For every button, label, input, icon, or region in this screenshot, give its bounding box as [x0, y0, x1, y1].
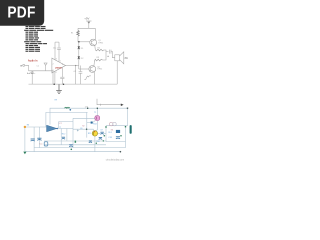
- speaker SP1: [115, 52, 124, 64]
- svg-text:2: 2: [53, 63, 54, 65]
- wire mic row: [106, 125, 128, 127]
- supply arrow: [87, 22, 90, 24]
- svg-text:PDF: PDF: [7, 5, 35, 22]
- svg-text:1: 1: [60, 60, 61, 62]
- svg-text:RL1: RL1: [108, 132, 111, 134]
- svg-text:8Ω: 8Ω: [125, 57, 128, 60]
- green mark far left: [75, 141, 77, 143]
- wire Q3-Q4 link: [95, 121, 97, 131]
- svg-text:R2: R2: [82, 125, 84, 127]
- wire top rail: [78, 27, 95, 29]
- wire C1 to rail: [31, 74, 33, 85]
- svg-text:T1: T1: [94, 112, 96, 114]
- op-amp U1: [52, 58, 66, 73]
- wire bias column lower: [78, 60, 80, 69]
- capacitor C2: [110, 50, 112, 54]
- wire cap to right vertical: [104, 132, 106, 134]
- output node dot: [75, 65, 76, 66]
- wire left vertical 3: [38, 127, 40, 148]
- svg-text:C9: C9: [100, 130, 102, 132]
- wire Q2 emitter: [93, 62, 96, 67]
- wire input rail: [25, 126, 47, 128]
- wire to Q4 base: [93, 129, 95, 131]
- transistor Q2: [89, 66, 96, 73]
- blue box lower-left: [44, 142, 48, 146]
- wire Q4 emitter down: [94, 136, 96, 152]
- svg-text:R2: R2: [98, 47, 100, 49]
- wire mid vertical a: [66, 129, 68, 141]
- wire bypass pin down: [54, 71, 56, 84]
- input jack J1: [23, 64, 26, 66]
- capacitor C4: [60, 77, 64, 78]
- wire gain loop right upper: [58, 42, 60, 48]
- svg-text:M1: M1: [111, 130, 114, 132]
- ground lower (green): [23, 152, 26, 155]
- transistor Q4 (yellow): [92, 131, 97, 136]
- wire mid vertical b: [72, 118, 74, 147]
- svg-text:.05: .05: [73, 71, 76, 73]
- wire rail left drop: [77, 28, 79, 30]
- wire bottom rail B1: [34, 147, 125, 149]
- wire gain loop left: [54, 42, 56, 60]
- wire jack to drop: [25, 65, 28, 71]
- svg-text:R12: R12: [62, 134, 65, 136]
- green dot left column: [104, 135, 106, 137]
- resistor R4: [84, 76, 91, 79]
- svg-text:R14: R14: [93, 123, 96, 125]
- capacitor C14: [62, 137, 66, 139]
- wire op-amp out: [57, 128, 61, 130]
- capacitor C1: [31, 72, 34, 73]
- wire lower rail H2: [46, 112, 88, 127]
- wire Q3 collector: [96, 108, 98, 116]
- wire pin to C4: [61, 67, 63, 77]
- green dot right: [103, 140, 104, 141]
- junction dot bias top: [78, 41, 80, 43]
- svg-text:C1: C1: [37, 66, 39, 68]
- wire C2 to speaker: [111, 52, 115, 58]
- wire base resistor to Q3: [93, 121, 96, 123]
- B2 end dot: [120, 151, 122, 153]
- capacitor right of Q4: [100, 132, 103, 134]
- wire H4: [106, 141, 126, 143]
- op-amp A1: [47, 125, 57, 132]
- wire Q1 emitter: [94, 45, 97, 49]
- wire base row: [73, 117, 95, 119]
- capacitor C11: [37, 138, 41, 140]
- wire mid row: [73, 128, 94, 130]
- transistor Q1: [90, 39, 97, 46]
- svg-text:R6: R6: [27, 124, 29, 126]
- +9V supply symbol: [86, 21, 92, 28]
- capacitor left cluster: [89, 141, 92, 143]
- svg-text:8: 8: [56, 58, 57, 60]
- wire feedback row: [59, 122, 73, 129]
- inductor L1: [65, 107, 72, 110]
- svg-text:IC2: IC2: [59, 123, 62, 125]
- capacitor C5: [79, 72, 83, 73]
- wire Q2 base: [79, 68, 89, 70]
- junction dot rail a: [53, 83, 55, 85]
- wire pin3 drop: [52, 71, 54, 84]
- node orange: [24, 126, 26, 128]
- node dot mic right: [125, 126, 126, 127]
- resistor R2: [95, 49, 103, 51]
- node dot H1 a: [87, 108, 88, 109]
- svg-text:R15: R15: [88, 133, 91, 135]
- junction cross mid: [77, 130, 79, 132]
- mic M1: [110, 122, 117, 125]
- diode D2: [78, 56, 85, 60]
- svg-text:R1: R1: [71, 33, 73, 35]
- svg-text:3: 3: [53, 70, 54, 72]
- wire gain loop right lower: [58, 49, 60, 62]
- ground symbol below rail: [56, 84, 62, 93]
- capacitor C10: [31, 139, 35, 141]
- callout arrow line: [97, 99, 121, 105]
- node dot H1 right end: [127, 108, 128, 109]
- svg-text:4: 4: [56, 72, 57, 74]
- svg-text:10u: 10u: [53, 48, 56, 50]
- svg-text:10u: 10u: [39, 143, 42, 145]
- wire R3 to output node: [103, 52, 107, 61]
- wire input to op-amp: [29, 70, 54, 72]
- resistor R1: [77, 31, 80, 37]
- wire output node top: [104, 50, 109, 52]
- svg-text:R3: R3: [97, 57, 99, 59]
- svg-text:TIP32: TIP32: [97, 69, 102, 71]
- wire bottom rail B2: [25, 151, 121, 153]
- green dot right column: [120, 135, 122, 137]
- wire zobel drop: [79, 66, 81, 72]
- node dot H1 b: [97, 108, 98, 109]
- svg-text:Audio In: Audio In: [28, 60, 38, 63]
- node dot mic left: [105, 126, 106, 127]
- wire right vertical: [125, 126, 127, 148]
- ground rail: [29, 83, 118, 85]
- wire H1 right drop: [127, 108, 129, 126]
- transistor Q3 (pink): [95, 116, 100, 121]
- wire Q1 collector: [94, 28, 96, 40]
- wire out vertical: [60, 129, 62, 137]
- wire left vertical 1: [24, 127, 26, 151]
- wire Q4 right cap link: [98, 132, 101, 134]
- wire H mid a: [44, 140, 106, 142]
- wire gain loop top: [55, 41, 59, 43]
- resistor R3: [94, 59, 102, 61]
- PDF badge: [0, 0, 44, 26]
- wire C4 to rail: [61, 79, 63, 85]
- callout tick: [100, 104, 102, 106]
- green dot under cluster: [96, 143, 97, 144]
- wire lower top rail H1: [50, 108, 128, 124]
- wire out vertical lower: [60, 140, 62, 145]
- diode D1: [78, 46, 85, 50]
- capacitor below Q4: [99, 138, 102, 140]
- wire H2 end drop: [86, 112, 88, 137]
- svg-text:R9: R9: [55, 99, 57, 101]
- wire H mid b: [44, 144, 106, 146]
- wire C5 to rail: [79, 73, 81, 84]
- junction dot rail b: [63, 83, 65, 85]
- wire bias column mid: [78, 50, 80, 57]
- svg-text:C6: C6: [80, 128, 82, 130]
- wire Q2 collector: [93, 72, 95, 84]
- wire to base resistor: [87, 122, 91, 124]
- wire mid horizontal: [61, 128, 73, 130]
- wire left vertical 2: [33, 127, 35, 152]
- wire Q1 base: [79, 41, 90, 43]
- svg-text:C18: C18: [108, 137, 111, 139]
- wire cap column top: [31, 71, 33, 72]
- capacitor C17: [116, 137, 120, 139]
- op-amp output wire: [66, 65, 79, 67]
- wire bias column upper: [77, 36, 80, 46]
- capacitor C15: [69, 145, 73, 147]
- parts list text block: [24, 26, 53, 52]
- capacitor C3: [57, 48, 61, 49]
- terminal bar (teal): [130, 125, 132, 134]
- node dot at op-amp output: [56, 128, 58, 130]
- ground symbol at input: [44, 63, 48, 71]
- green dot below C15: [71, 149, 73, 151]
- svg-text:circuitstoday.com: circuitstoday.com: [106, 158, 124, 161]
- callout arrowhead: [121, 104, 124, 107]
- wire speaker to ground rail: [116, 61, 118, 84]
- svg-text:TIP31: TIP31: [98, 42, 103, 44]
- svg-text:LM386: LM386: [55, 68, 63, 70]
- base resistor blue square: [91, 122, 93, 124]
- blue component box: [116, 130, 120, 133]
- wire mic left vertical: [105, 126, 107, 142]
- wire output node drop: [75, 66, 77, 85]
- node dot mid row: [86, 129, 87, 130]
- svg-text:+9V: +9V: [84, 17, 89, 21]
- svg-text:6: 6: [62, 64, 63, 66]
